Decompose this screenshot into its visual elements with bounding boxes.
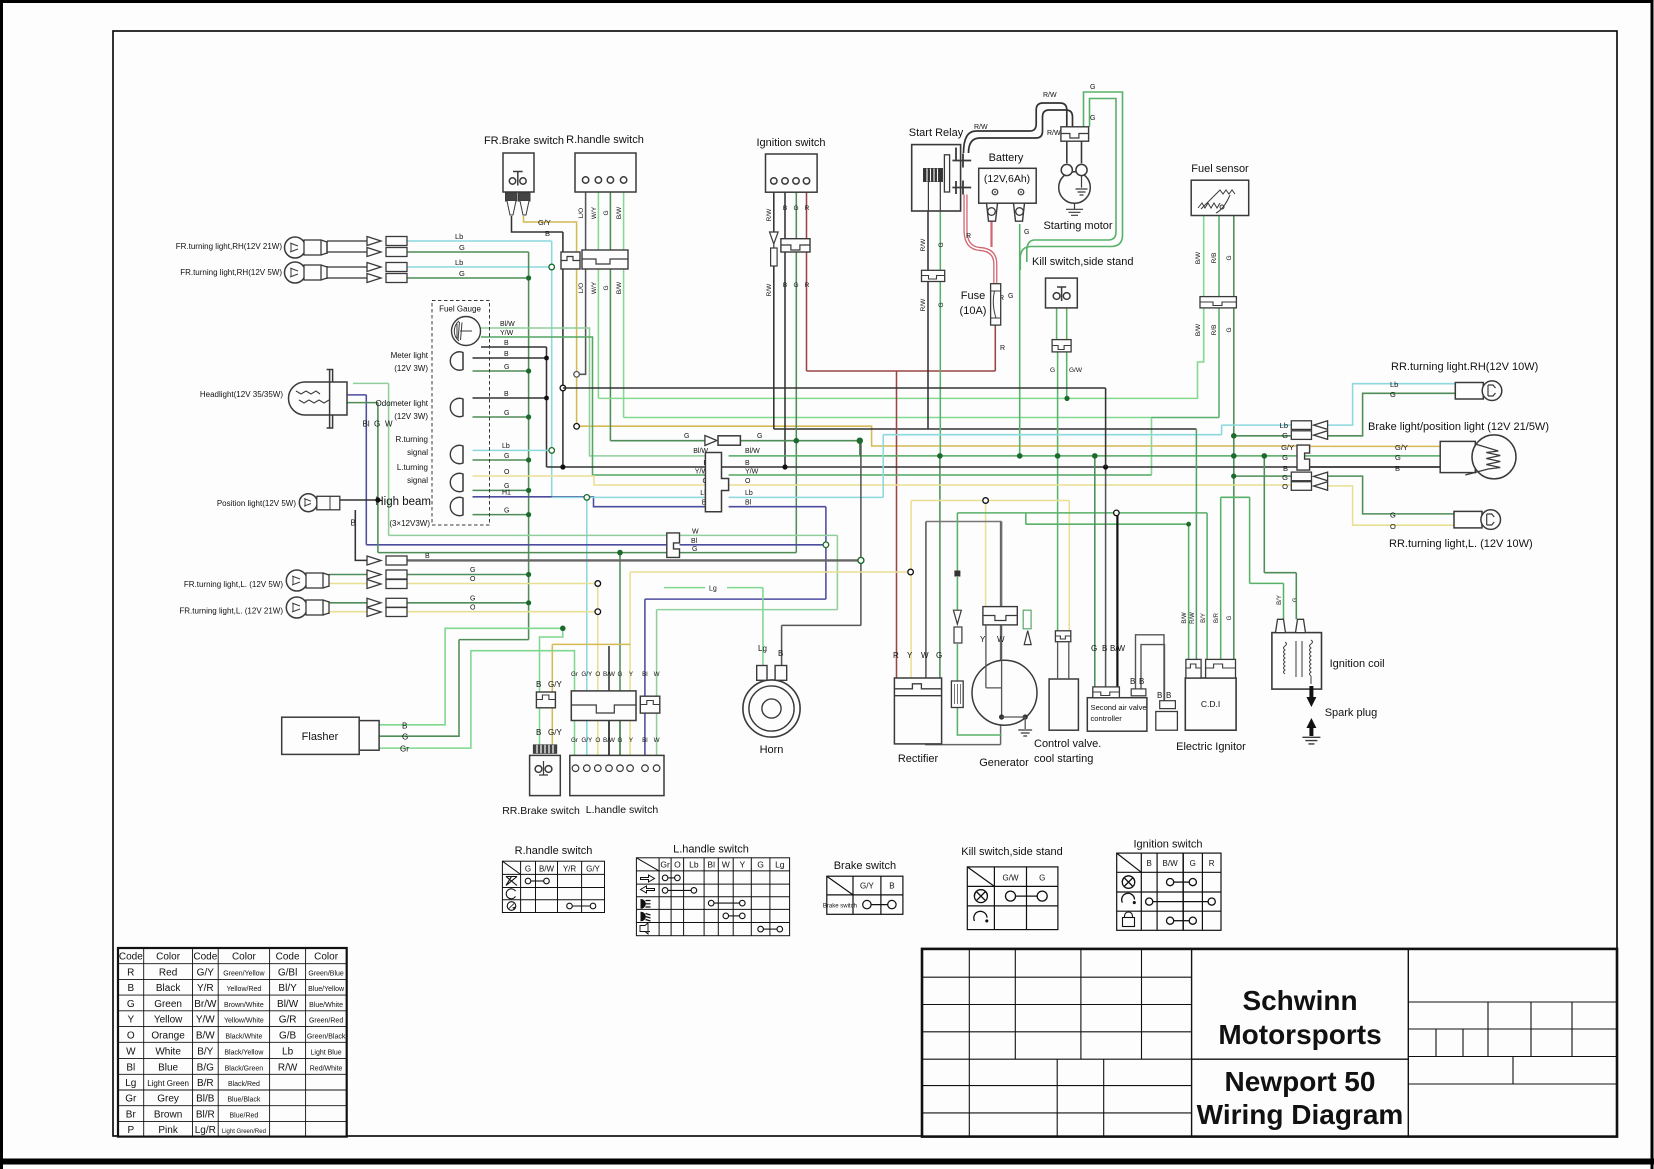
svg-text:W: W bbox=[385, 420, 393, 429]
svg-text:Bl/W: Bl/W bbox=[277, 999, 299, 1010]
FR brake switch plug hatch bbox=[506, 193, 531, 215]
svg-text:Ignition switch: Ignition switch bbox=[1133, 839, 1202, 851]
svg-text:G: G bbox=[938, 242, 945, 247]
svg-text:Brown/White: Brown/White bbox=[224, 1002, 264, 1009]
svg-text:Flasher: Flasher bbox=[302, 731, 339, 743]
svg-text:B: B bbox=[402, 721, 407, 730]
wire B main bbox=[547, 466, 1441, 468]
wire B/W CDI bbox=[1188, 524, 1190, 659]
svg-text:R/W: R/W bbox=[766, 283, 773, 297]
svg-text:R/B: R/B bbox=[1211, 325, 1218, 336]
Kill switch box bbox=[1046, 278, 1078, 308]
wire G FR L 5W bbox=[329, 574, 529, 576]
svg-text:R/W: R/W bbox=[1047, 130, 1061, 137]
svg-text:B: B bbox=[1166, 691, 1171, 700]
wire B air valve bbox=[1105, 467, 1107, 687]
RR brake switch box bbox=[530, 755, 561, 795]
svg-text:Grey: Grey bbox=[157, 1094, 179, 1105]
svg-text:R: R bbox=[966, 233, 971, 240]
wire R/W G labels top bbox=[974, 84, 1095, 137]
svg-text:Y/W: Y/W bbox=[196, 1015, 215, 1026]
svg-text:B: B bbox=[1147, 859, 1152, 868]
svg-text:G: G bbox=[618, 671, 623, 678]
wire R bus to fuse and rectifier bbox=[807, 325, 996, 678]
svg-text:Yellow: Yellow bbox=[154, 1015, 183, 1026]
svg-text:B: B bbox=[536, 728, 541, 737]
svg-text:G: G bbox=[1390, 511, 1396, 520]
svg-text:G: G bbox=[793, 205, 798, 212]
svg-text:G/Y: G/Y bbox=[538, 218, 551, 227]
svg-text:B: B bbox=[1139, 677, 1144, 686]
svg-text:Blue/Red: Blue/Red bbox=[230, 1112, 259, 1119]
svg-text:Red/White: Red/White bbox=[310, 1065, 343, 1072]
svg-text:Orange: Orange bbox=[151, 1030, 185, 1041]
wire G air valve bbox=[1094, 456, 1096, 687]
svg-text:Light Green: Light Green bbox=[147, 1079, 189, 1088]
svg-text:W: W bbox=[654, 737, 660, 744]
svg-text:B: B bbox=[1395, 464, 1400, 473]
svg-text:B/W: B/W bbox=[1182, 612, 1188, 624]
mid connector 1 (harness) bbox=[705, 453, 728, 512]
svg-text:L/O: L/O bbox=[578, 283, 585, 293]
svg-text:G/Bl: G/Bl bbox=[278, 968, 297, 979]
wire G/W kill switch bbox=[1066, 299, 1068, 398]
wire Bl high beam bbox=[473, 497, 713, 507]
svg-text:FR.Brake switch: FR.Brake switch bbox=[484, 135, 564, 147]
wire G/Y G B to brake bulb bbox=[1310, 445, 1441, 447]
L handle wire labels bbox=[571, 671, 660, 744]
svg-text:signal: signal bbox=[407, 476, 428, 485]
svg-text:R.handle switch: R.handle switch bbox=[515, 845, 593, 857]
right arrow icon bbox=[641, 875, 655, 882]
svg-text:B/R: B/R bbox=[197, 1078, 214, 1089]
right connector stack bbox=[1291, 421, 1327, 491]
Starting motor connector bbox=[1061, 127, 1089, 141]
svg-text:B: B bbox=[745, 460, 750, 467]
svg-text:W: W bbox=[692, 529, 699, 536]
svg-text:Light Green/Red: Light Green/Red bbox=[222, 1129, 266, 1135]
svg-text:Y/R: Y/R bbox=[563, 865, 577, 874]
svg-text:Rectifier: Rectifier bbox=[898, 753, 939, 765]
svg-text:B: B bbox=[351, 519, 356, 528]
harness labels at connector1 bbox=[693, 448, 708, 507]
ignition wire labels bbox=[766, 205, 810, 296]
svg-text:Y: Y bbox=[980, 635, 986, 644]
Ignition switch table bbox=[1117, 839, 1221, 931]
Control valve bbox=[1049, 679, 1078, 730]
svg-text:Bl/B: Bl/B bbox=[196, 1094, 215, 1105]
L handle switch upper connector bbox=[571, 691, 636, 721]
svg-text:O: O bbox=[470, 605, 476, 612]
svg-text:B: B bbox=[504, 351, 509, 358]
Generator bbox=[972, 660, 1037, 725]
wire O FR L 21W bbox=[329, 611, 598, 613]
wire R/W bus horizontal bbox=[774, 428, 1197, 430]
svg-text:Y/W: Y/W bbox=[500, 330, 514, 337]
svg-text:G/Y: G/Y bbox=[581, 671, 593, 678]
svg-text:Pink: Pink bbox=[158, 1125, 178, 1136]
svg-text:(12V 3W): (12V 3W) bbox=[394, 364, 428, 373]
svg-text:G: G bbox=[459, 243, 465, 252]
wire O L turn signal bbox=[473, 476, 713, 485]
svg-text:O: O bbox=[504, 469, 510, 476]
padlock icon bbox=[1123, 918, 1135, 927]
svg-text:B: B bbox=[1102, 644, 1107, 653]
svg-text:G: G bbox=[127, 999, 135, 1010]
svg-text:Y: Y bbox=[127, 1015, 134, 1026]
svg-text:Y/W: Y/W bbox=[745, 469, 759, 476]
svg-text:Y/R: Y/R bbox=[197, 983, 214, 994]
svg-text:R/W: R/W bbox=[278, 1062, 298, 1073]
svg-text:(12V,6Ah): (12V,6Ah) bbox=[984, 173, 1030, 185]
svg-text:G: G bbox=[374, 420, 380, 429]
svg-text:(10A): (10A) bbox=[960, 305, 987, 317]
wire Lb L handle drop bbox=[586, 497, 588, 755]
svg-text:Brown: Brown bbox=[154, 1109, 182, 1120]
RR turning light L bulb bbox=[1454, 511, 1482, 528]
wire fuel sensor B/W bbox=[1203, 216, 1205, 363]
wire G starting motor loop bbox=[1020, 92, 1122, 270]
svg-text:G: G bbox=[757, 860, 764, 870]
start relay drop connector bbox=[922, 270, 945, 281]
svg-text:G: G bbox=[470, 596, 475, 603]
svg-text:Red: Red bbox=[159, 968, 177, 979]
svg-text:W/Y: W/Y bbox=[591, 206, 598, 219]
wire B vertical to B main bbox=[562, 232, 564, 467]
wire Gr flasher bbox=[379, 651, 574, 756]
svg-text:Fuel sensor: Fuel sensor bbox=[1191, 163, 1249, 175]
svg-text:G: G bbox=[938, 302, 945, 307]
title block outer frame bbox=[922, 949, 1617, 1137]
svg-text:Blue/Black: Blue/Black bbox=[227, 1097, 261, 1104]
wire green H 513 bbox=[957, 513, 1207, 660]
wire R battery cable bbox=[966, 195, 996, 284]
wire G headlight bbox=[347, 403, 796, 553]
svg-text:G: G bbox=[603, 210, 610, 215]
wire R/W start relay loops to starting motor bbox=[964, 103, 1073, 153]
svg-text:G: G bbox=[470, 567, 475, 574]
svg-text:Brake switch: Brake switch bbox=[823, 904, 857, 910]
svg-text:B/W: B/W bbox=[603, 671, 615, 678]
wire O L handle drop bbox=[597, 584, 599, 756]
svg-text:B: B bbox=[778, 649, 783, 658]
B arrow connector (position light) bbox=[367, 556, 407, 565]
svg-text:G: G bbox=[504, 364, 509, 371]
svg-text:G: G bbox=[793, 282, 798, 289]
svg-text:Start Relay: Start Relay bbox=[909, 127, 964, 139]
svg-text:Black: Black bbox=[156, 983, 181, 994]
svg-text:L.handle switch: L.handle switch bbox=[586, 804, 659, 816]
svg-text:cool starting: cool starting bbox=[1034, 753, 1093, 765]
wire B thick to horn bus bbox=[407, 559, 861, 561]
svg-text:G: G bbox=[1226, 255, 1233, 260]
svg-text:Br/W: Br/W bbox=[194, 999, 217, 1010]
svg-text:R/B: R/B bbox=[1211, 253, 1218, 264]
svg-text:Ignition switch: Ignition switch bbox=[756, 137, 825, 149]
svg-text:G: G bbox=[603, 285, 610, 290]
svg-text:Gr: Gr bbox=[571, 671, 578, 678]
wire G flasher bbox=[379, 640, 528, 737]
wire Bl headlight bbox=[347, 395, 826, 545]
svg-text:W: W bbox=[654, 671, 660, 678]
svg-text:Code: Code bbox=[276, 952, 300, 963]
wire B/Y coil loop bbox=[1221, 497, 1284, 619]
wire R/W start relay drop bbox=[927, 211, 929, 429]
svg-text:G/Y: G/Y bbox=[548, 728, 562, 737]
svg-text:Bl: Bl bbox=[745, 500, 752, 507]
svg-text:G: G bbox=[1190, 859, 1196, 868]
svg-text:G/Y: G/Y bbox=[1395, 443, 1408, 452]
svg-text:Control valve.: Control valve. bbox=[1034, 738, 1101, 750]
wire B FR brake bbox=[512, 216, 563, 232]
svg-text:G: G bbox=[757, 433, 762, 440]
wire Lb R turn signal bbox=[473, 449, 552, 451]
svg-text:G/Y: G/Y bbox=[860, 882, 874, 891]
svg-text:B/R: B/R bbox=[1214, 612, 1220, 623]
svg-text:Ignition coil: Ignition coil bbox=[1330, 658, 1385, 670]
svg-text:RR.turning light.RH(12V 10W): RR.turning light.RH(12V 10W) bbox=[1391, 361, 1538, 373]
svg-text:B: B bbox=[1130, 677, 1135, 686]
R.handle wire labels bbox=[578, 206, 623, 294]
wire position light lead bbox=[340, 499, 378, 501]
wire G RR L bbox=[1234, 476, 1454, 514]
svg-text:Bl: Bl bbox=[707, 860, 715, 870]
wire G collector vertical bbox=[528, 252, 530, 640]
horn icon bbox=[640, 923, 648, 934]
wire G/Y RR brake bbox=[552, 644, 630, 745]
svg-text:G: G bbox=[1091, 644, 1097, 653]
svg-text:G: G bbox=[1024, 229, 1029, 236]
svg-text:Lb: Lb bbox=[455, 232, 463, 241]
svg-text:Schwinn: Schwinn bbox=[1242, 985, 1357, 1016]
svg-text:Gr: Gr bbox=[660, 860, 670, 870]
svg-text:Code: Code bbox=[119, 952, 143, 963]
svg-text:Meter light: Meter light bbox=[391, 351, 429, 360]
svg-text:Kill switch,side stand: Kill switch,side stand bbox=[1032, 256, 1134, 268]
wire G ignition coil drop bbox=[1264, 456, 1296, 619]
svg-text:Bl/R: Bl/R bbox=[196, 1109, 215, 1120]
svg-text:Lb: Lb bbox=[1390, 380, 1398, 389]
wire W rectifier-generator bbox=[926, 522, 1002, 679]
svg-text:Color: Color bbox=[314, 952, 339, 963]
svg-text:B/W: B/W bbox=[1195, 251, 1202, 264]
svg-text:O: O bbox=[1390, 522, 1396, 531]
svg-text:B/W: B/W bbox=[603, 737, 615, 744]
svg-text:G/Y: G/Y bbox=[548, 680, 562, 689]
svg-text:Yellow/White: Yellow/White bbox=[224, 1018, 264, 1025]
svg-text:Y: Y bbox=[907, 651, 913, 660]
Ignition connector bbox=[781, 239, 810, 252]
svg-text:Bl/W: Bl/W bbox=[745, 448, 760, 455]
Battery box bbox=[979, 168, 1036, 203]
wire R ignition bbox=[806, 192, 808, 371]
svg-text:B: B bbox=[783, 282, 787, 289]
mid connector 2 (headlamp sub) bbox=[667, 533, 680, 558]
CDI wire labels bbox=[1182, 595, 1299, 624]
svg-text:R/W: R/W bbox=[1043, 92, 1057, 99]
svg-text:B/W: B/W bbox=[616, 281, 623, 294]
svg-text:Starting motor: Starting motor bbox=[1043, 220, 1112, 232]
wire G main jog and right run bbox=[859, 441, 861, 456]
wire Lg horn bbox=[664, 588, 763, 666]
wire B gauge group bbox=[473, 347, 547, 467]
svg-text:B: B bbox=[545, 229, 550, 238]
svg-text:B: B bbox=[1157, 691, 1162, 700]
svg-text:B/Y: B/Y bbox=[1201, 613, 1207, 623]
wire G to rectifier bbox=[939, 456, 941, 678]
svg-text:B: B bbox=[425, 553, 430, 560]
title block left grid verticals lower bbox=[1057, 1059, 1104, 1136]
wire labels FR RH bbox=[455, 232, 465, 278]
svg-text:G: G bbox=[459, 269, 465, 278]
svg-text:G/W: G/W bbox=[1069, 367, 1083, 374]
left arrow icon bbox=[641, 886, 655, 893]
svg-text:Lg: Lg bbox=[758, 644, 767, 653]
svg-text:Green/Red: Green/Red bbox=[309, 1018, 343, 1025]
svg-text:Fuel Gauge: Fuel Gauge bbox=[439, 305, 481, 314]
svg-text:White: White bbox=[155, 1046, 181, 1057]
svg-text:C.D.I: C.D.I bbox=[1201, 699, 1220, 709]
Ignition coil bbox=[1272, 633, 1322, 690]
svg-text:Lg: Lg bbox=[775, 860, 785, 870]
svg-text:Gr: Gr bbox=[571, 737, 578, 744]
svg-text:Color: Color bbox=[156, 952, 181, 963]
svg-text:G: G bbox=[692, 546, 697, 553]
wire B 388 branch bbox=[563, 388, 1106, 467]
wire fuel sensor G bbox=[1233, 216, 1235, 660]
turn signal relay diode+box on G line bbox=[705, 436, 717, 446]
Electric ignitor CDI bbox=[1185, 678, 1236, 730]
svg-text:B/Y: B/Y bbox=[1277, 595, 1283, 605]
title block left grid verticals upper bbox=[969, 949, 1141, 1137]
R handle switch box bbox=[575, 153, 636, 192]
svg-text:Bl/W: Bl/W bbox=[500, 321, 515, 328]
Horn bbox=[743, 680, 800, 737]
L.handle switch table bbox=[636, 844, 789, 936]
svg-text:Green/Yellow: Green/Yellow bbox=[223, 971, 265, 978]
wire G FR L 21W bbox=[329, 602, 529, 604]
wire G RR RH bbox=[1234, 393, 1456, 436]
svg-text:Headlight(12V 35/35W): Headlight(12V 35/35W) bbox=[200, 390, 283, 399]
wire Y L handle drop bbox=[630, 572, 911, 755]
Rectifier bbox=[894, 678, 941, 744]
svg-text:R/W: R/W bbox=[920, 298, 927, 312]
svg-text:Position light(12V 5W): Position light(12V 5W) bbox=[217, 499, 296, 508]
svg-text:W: W bbox=[722, 860, 730, 870]
Brake switch table bbox=[823, 860, 903, 914]
wire W headlight bbox=[353, 383, 837, 755]
svg-text:L/O: L/O bbox=[578, 208, 585, 218]
svg-text:Green: Green bbox=[154, 999, 182, 1010]
wire O main right bbox=[729, 484, 1292, 486]
svg-text:Bl: Bl bbox=[126, 1062, 135, 1073]
wire Lb harness bbox=[552, 425, 1292, 497]
wire green H 524 coil feed bbox=[1026, 513, 1189, 524]
title block right grid verticals bbox=[1436, 1002, 1572, 1084]
wire G meter lamps to collector bbox=[473, 371, 529, 515]
svg-text:B/W: B/W bbox=[196, 1030, 215, 1041]
wire Y generator branch bbox=[985, 501, 987, 607]
air valve U links bbox=[1136, 635, 1165, 701]
wire G kill switch bbox=[1057, 299, 1058, 631]
Battery terminals bbox=[987, 203, 1025, 221]
title block right grid horizontals bbox=[1408, 1002, 1617, 1084]
svg-text:Newport 50: Newport 50 bbox=[1225, 1066, 1376, 1097]
junction dots bbox=[375, 275, 1267, 631]
Fuel sensor connector bbox=[1200, 297, 1236, 308]
bulb wire labels bbox=[500, 321, 515, 515]
svg-text:Bl: Bl bbox=[691, 538, 698, 545]
wire G main harness bbox=[610, 440, 859, 442]
svg-text:FR.turning light,RH(12V 21W): FR.turning light,RH(12V 21W) bbox=[176, 242, 283, 251]
RR brake switch connector bbox=[536, 692, 555, 708]
svg-text:Y: Y bbox=[739, 860, 745, 870]
svg-text:H1: H1 bbox=[502, 490, 511, 497]
svg-text:G: G bbox=[504, 508, 509, 515]
svg-text:Fuse: Fuse bbox=[961, 290, 985, 302]
svg-text:Color: Color bbox=[232, 952, 257, 963]
svg-text:Lb: Lb bbox=[689, 860, 699, 870]
svg-text:FR.turning light,L. (12V 5W): FR.turning light,L. (12V 5W) bbox=[184, 580, 283, 589]
svg-text:Spark plug: Spark plug bbox=[1325, 707, 1378, 719]
svg-text:Blue/Yellow: Blue/Yellow bbox=[308, 986, 345, 993]
svg-text:FR.turning light,L. (12V 21W): FR.turning light,L. (12V 21W) bbox=[179, 607, 283, 616]
svg-text:G: G bbox=[936, 651, 942, 660]
arrow connectors FR RH bbox=[367, 237, 407, 283]
svg-text:R/W: R/W bbox=[974, 124, 988, 131]
wire Y/W right run bbox=[729, 474, 1152, 476]
svg-text:Br: Br bbox=[126, 1109, 137, 1120]
svg-text:R/W: R/W bbox=[920, 238, 927, 252]
svg-text:Lb: Lb bbox=[1280, 421, 1288, 430]
svg-text:G/Y: G/Y bbox=[581, 737, 593, 744]
wire Bl harness bbox=[645, 507, 826, 756]
wire Lb trunk vertical bbox=[551, 241, 553, 497]
svg-text:G: G bbox=[1282, 431, 1288, 440]
wire G ignition vertical bbox=[795, 192, 797, 553]
svg-text:L.handle switch: L.handle switch bbox=[673, 844, 749, 856]
wire R/W ignition switch bbox=[773, 192, 775, 429]
svg-text:Green/Blue: Green/Blue bbox=[308, 971, 344, 978]
svg-text:Wiring Diagram: Wiring Diagram bbox=[1197, 1099, 1404, 1130]
svg-text:Generator: Generator bbox=[979, 757, 1029, 769]
svg-text:B/W: B/W bbox=[539, 865, 555, 874]
wire B/W air valve thick bbox=[1116, 513, 1118, 687]
wire Lb FR RH 21W leads bbox=[327, 241, 367, 278]
generator enclosure box bbox=[926, 522, 1001, 745]
svg-text:Green/Black: Green/Black bbox=[307, 1033, 346, 1040]
wire R/W CDI bbox=[1195, 429, 1197, 659]
svg-text:Odometer light: Odometer light bbox=[376, 399, 429, 408]
R handle connector pair bbox=[561, 252, 580, 269]
svg-text:Black/Red: Black/Red bbox=[228, 1081, 260, 1088]
wire B RR brake green bbox=[379, 628, 563, 745]
svg-text:Code: Code bbox=[193, 952, 217, 963]
svg-text:B: B bbox=[1283, 464, 1288, 473]
svg-text:G: G bbox=[1282, 473, 1288, 482]
svg-text:W: W bbox=[921, 651, 929, 660]
svg-text:R/W: R/W bbox=[766, 208, 773, 222]
svg-text:Lb: Lb bbox=[455, 258, 463, 267]
svg-text:O: O bbox=[470, 576, 476, 583]
wire G start relay drop bbox=[939, 211, 941, 456]
Kill switch side stand table bbox=[961, 846, 1063, 930]
svg-text:B/G: B/G bbox=[197, 1062, 214, 1073]
svg-text:Lg/R: Lg/R bbox=[195, 1125, 216, 1136]
svg-text:G/B: G/B bbox=[279, 1030, 297, 1041]
svg-text:O: O bbox=[674, 860, 681, 870]
svg-text:R/W: R/W bbox=[1190, 612, 1196, 624]
